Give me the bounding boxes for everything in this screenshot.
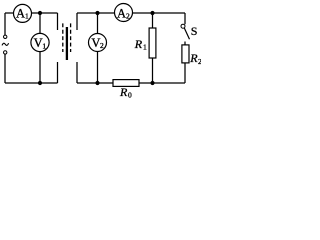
label R0 [119, 85, 132, 100]
wire transformer primary left vertical top [57, 13, 59, 30]
voltmeter V2 [89, 34, 107, 52]
svg-text:R: R [119, 85, 128, 98]
wire top-left from source to A1 [5, 12, 14, 14]
node junction top R1 [150, 11, 154, 15]
AC source tilde [2, 43, 9, 45]
node junction bottom V2 [95, 81, 99, 85]
ammeter A2 [115, 4, 133, 22]
ammeter A1 [14, 4, 32, 22]
transformer T primary coil [62, 23, 64, 52]
svg-text:S: S [191, 24, 198, 38]
wire V2 top lead [97, 13, 99, 34]
node junction top V1 [38, 11, 42, 15]
svg-text:1: 1 [143, 43, 147, 52]
AC source terminal upper [3, 35, 6, 38]
wire transformer secondary right vertical top [76, 13, 78, 30]
wire secondary top to A2 [77, 12, 115, 14]
wire left edge lower [4, 54, 6, 83]
svg-text:A: A [117, 6, 126, 20]
svg-text:0: 0 [128, 91, 132, 98]
wire V1 top lead [39, 13, 41, 33]
wire bottom-right left of R0 [77, 82, 113, 84]
svg-text:R: R [189, 51, 198, 65]
svg-text:V: V [34, 36, 43, 50]
wire A1 to transformer primary top [31, 12, 57, 14]
wire A2 to switch corner [132, 12, 185, 14]
AC source terminal lower [3, 51, 6, 54]
wire transformer primary left vertical bottom [57, 62, 59, 83]
resistor R1 [149, 28, 156, 58]
svg-text:2: 2 [126, 12, 130, 21]
wire bottom-right right of R0 [139, 82, 185, 84]
switch S pivot [181, 24, 185, 28]
switch S blade [184, 28, 189, 39]
wire R1 bottom lead [152, 58, 154, 83]
label R2 [189, 51, 202, 66]
transformer T core [66, 27, 68, 60]
node junction top V2 [95, 11, 99, 15]
svg-text:2: 2 [100, 41, 104, 50]
label R1 [134, 37, 147, 52]
wire left edge upper [4, 13, 6, 35]
svg-text:1: 1 [25, 12, 29, 21]
wire V2 bottom lead [97, 52, 99, 84]
wire switch branch upper [184, 13, 186, 24]
wire bottom-left [5, 82, 58, 84]
wire transformer secondary right vertical bottom [76, 62, 78, 83]
wire R1 top lead [152, 13, 154, 28]
resistor R0 [113, 80, 139, 87]
svg-text:R: R [134, 37, 143, 51]
svg-text:A: A [16, 6, 25, 20]
transformer T secondary coil [70, 23, 72, 52]
node junction bottom V1 [38, 81, 42, 85]
wire switch to R2 [184, 42, 186, 46]
svg-text:1: 1 [42, 41, 46, 50]
wire V1 bottom lead [39, 52, 41, 83]
wire R2 bottom lead [184, 63, 186, 83]
voltmeter V1 [31, 33, 49, 51]
svg-text:2: 2 [198, 57, 201, 66]
node junction bottom R1 [150, 81, 154, 85]
resistor R2 [182, 45, 189, 63]
